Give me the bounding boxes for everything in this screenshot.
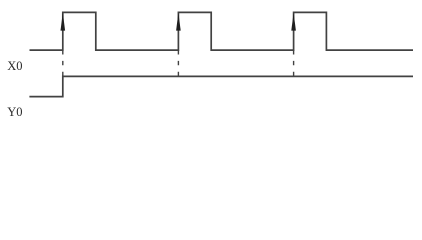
Y0 waveform trace (29, 76, 413, 96)
dashed sync line 1 (62, 50, 64, 76)
X0 waveform trace (30, 12, 414, 50)
dashed sync line 3 (293, 50, 295, 76)
dashed sync line 2 (177, 50, 179, 76)
arrow at X0 rising edge 1 (61, 13, 66, 31)
arrow at X0 rising edge 2 (176, 13, 181, 31)
arrow at X0 rising edge 3 (291, 13, 296, 31)
svg-text:X0: X0 (7, 59, 22, 73)
svg-text:Y0: Y0 (7, 105, 22, 119)
